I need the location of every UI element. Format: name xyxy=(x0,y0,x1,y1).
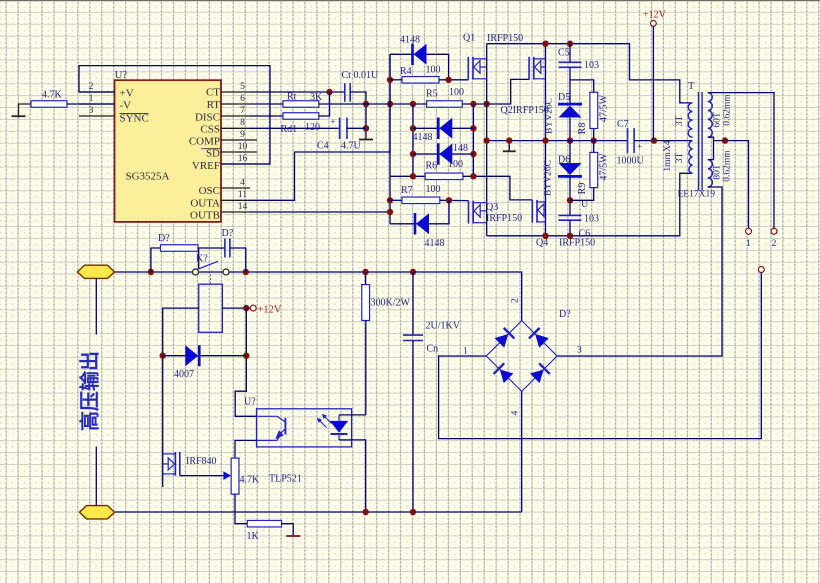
junction rail/Q2 drain xyxy=(542,41,548,47)
svg-text:47/5W: 47/5W xyxy=(599,153,610,181)
transformer secondary winding upper 60T xyxy=(708,93,712,138)
junction main/D? snubber xyxy=(148,269,154,275)
svg-text:10: 10 xyxy=(238,142,248,152)
wire 4.7K to 1K xyxy=(235,494,247,524)
capacitor Cn 2U/1KV xyxy=(412,272,414,335)
resistor 4.7K (left of IC) xyxy=(31,101,67,108)
connector top hexagon HV output xyxy=(77,265,114,278)
svg-text:+: + xyxy=(637,143,642,153)
resistor R6 100 xyxy=(425,173,463,180)
svg-text:1K: 1K xyxy=(247,531,260,542)
wire secondary top to port 2 xyxy=(708,93,774,229)
svg-text:SG3525A: SG3525A xyxy=(126,171,170,183)
wire capacitor to main xyxy=(230,248,246,272)
svg-text:IRFP150: IRFP150 xyxy=(486,213,522,224)
pin 2 of U? xyxy=(79,91,115,93)
junction secondary tap xyxy=(722,137,728,143)
svg-text:0.62mm: 0.62mm xyxy=(723,94,733,126)
svg-text:Rt: Rt xyxy=(287,92,297,103)
bridge diode 4-1 (points to 1) xyxy=(494,363,514,383)
junction Ct-vert/CSS line xyxy=(363,125,369,131)
wire main line hexagon to bridge pin 2 xyxy=(115,272,522,321)
wire bridge 4 down to bottom rail xyxy=(521,391,523,512)
svg-text:Q3: Q3 xyxy=(486,202,498,213)
wire port3 to bridge input loop xyxy=(439,273,762,439)
wire bottom rail Q3/Q4 sources to transformer primary bottom xyxy=(487,173,693,236)
svg-text:CSS: CSS xyxy=(200,124,220,136)
transformer primary winding lower 3T xyxy=(689,141,693,174)
ground below C4 branch xyxy=(359,139,373,141)
HV output leader line lower xyxy=(95,447,97,506)
capacitor D? xyxy=(224,239,226,258)
capacitor Ct xyxy=(344,83,346,102)
opto LED xyxy=(330,421,348,433)
gate network left rail xyxy=(389,54,391,224)
wire to snubber resistor D? xyxy=(151,248,161,272)
svg-text:EE17X19: EE17X19 xyxy=(678,190,716,200)
wire opto LED cathode to bottom rail xyxy=(339,439,352,441)
diode D6 BYV26C xyxy=(558,175,582,178)
junction relay-left/4007 xyxy=(160,353,166,359)
ground on center line xyxy=(508,141,510,151)
svg-text:R6: R6 xyxy=(426,161,438,172)
transistor Q2 IRFP150 xyxy=(528,57,530,80)
junction rail/OUTA xyxy=(387,197,393,203)
wire R9 bottom return xyxy=(570,188,594,201)
wire Rt to R5 and Q2 gate xyxy=(319,103,427,105)
diode 4148 (lower of pair) xyxy=(437,143,440,165)
opto phototransistor xyxy=(257,415,278,417)
switch K? xyxy=(193,269,199,275)
svg-text:1: 1 xyxy=(89,94,94,104)
wire R8 top xyxy=(570,80,594,92)
svg-text:C4: C4 xyxy=(317,141,329,152)
svg-text:CT: CT xyxy=(206,87,220,99)
HV output leader line upper xyxy=(95,278,97,334)
pin 11 of U? xyxy=(221,199,250,201)
transformer primary winding upper 3T xyxy=(688,103,692,137)
pin 6 of U? xyxy=(221,103,250,105)
resistor R9 47/5W xyxy=(590,152,598,187)
svg-text:R7: R7 xyxy=(401,185,413,196)
svg-text:RT: RT xyxy=(207,99,221,111)
svg-text:C7: C7 xyxy=(617,119,629,130)
svg-text:COMP: COMP xyxy=(189,136,220,148)
svg-text:1: 1 xyxy=(463,347,468,357)
wire opto LED anode to 300K xyxy=(339,414,366,416)
svg-text:Q1: Q1 xyxy=(463,33,475,44)
wire IRF840 gate to 4.7K with arrow xyxy=(180,475,225,477)
power +12V (top) xyxy=(651,21,657,27)
transistor IRF840 (mirrored MOSFET) xyxy=(174,452,176,476)
svg-text:4148: 4148 xyxy=(413,132,433,143)
svg-text:60T: 60T xyxy=(713,112,723,128)
wire opto emitter to 4.7K xyxy=(235,440,257,458)
wire center to D6 xyxy=(569,141,571,164)
diode 4148 (upper of pair) xyxy=(437,118,440,140)
svg-text:R4: R4 xyxy=(400,66,412,77)
svg-text:14: 14 xyxy=(238,202,248,212)
resistor D? (snubber) xyxy=(161,245,199,252)
wire 4007 line xyxy=(163,355,247,357)
pin 1 of U? xyxy=(79,103,115,105)
wire diode line 1 xyxy=(413,127,473,129)
svg-text:8: 8 xyxy=(240,118,245,128)
svg-text:3T: 3T xyxy=(675,153,685,164)
wire bottom rail from hexagon xyxy=(115,511,522,513)
diode 4148 (bottom, near R7) xyxy=(414,213,417,235)
wire snubber to capacitor D? xyxy=(198,247,225,249)
svg-text:+: + xyxy=(330,118,335,128)
wire 300K to opto anode xyxy=(365,321,367,415)
junction bottom/LED cathode xyxy=(363,509,369,515)
svg-text:+12V: +12V xyxy=(643,10,667,21)
svg-text:Cn: Cn xyxy=(427,344,439,355)
junction rail/R4 line xyxy=(387,77,393,83)
svg-text:+12V: +12V xyxy=(258,305,282,316)
svg-text:Q2IRFP150: Q2IRFP150 xyxy=(501,105,549,116)
svg-text:16: 16 xyxy=(238,154,248,164)
junction center/Q1Q3 xyxy=(484,137,490,143)
wire pin2 to VREF loop xyxy=(79,66,270,164)
wire R6 line to Q4 gate xyxy=(390,175,425,177)
junction bottom rail/Q4 source xyxy=(542,233,548,239)
junction main/cap branch xyxy=(243,269,249,275)
svg-text:Ct 0.01U: Ct 0.01U xyxy=(342,70,379,81)
junction R5 line/rail xyxy=(387,101,393,107)
svg-text:IRFP150: IRFP150 xyxy=(487,33,523,44)
transistor Q3 IRFP150 xyxy=(468,201,470,224)
pin 8 of U? xyxy=(221,127,250,129)
svg-text:4148: 4148 xyxy=(448,143,468,154)
wire Ct right to vertical xyxy=(350,92,366,139)
svg-text:C6: C6 xyxy=(579,229,591,240)
transformer secondary winding lower 80T xyxy=(708,160,713,187)
resistor R5 100 xyxy=(427,101,463,108)
wire center line xyxy=(487,140,627,142)
svg-text:OUTA: OUTA xyxy=(190,197,220,209)
relay link dashes xyxy=(210,275,212,284)
bridge diode 1-2 (points to 2) xyxy=(494,328,514,348)
wire R8 to center xyxy=(593,129,595,141)
svg-text:9: 9 xyxy=(240,130,245,140)
svg-text:R9: R9 xyxy=(577,183,588,195)
svg-text:0.62mm: 0.62mm xyxy=(723,150,733,182)
svg-text:+V: +V xyxy=(120,87,134,99)
junction R6/left diode rail xyxy=(410,173,416,179)
svg-text:D?: D? xyxy=(559,309,571,320)
pin 7 of U? xyxy=(221,115,250,117)
junction R5 line/Q1 source xyxy=(484,101,490,107)
junction rail/C5 xyxy=(567,41,573,47)
bridge rectifier D? diamond xyxy=(486,321,557,392)
port 1 xyxy=(746,228,752,234)
bridge diode 4-3 (points to 3) xyxy=(530,363,550,383)
svg-text:100: 100 xyxy=(426,64,441,75)
pin 16 of U? xyxy=(221,163,270,165)
wire pin7 to Rd1 xyxy=(250,115,283,117)
svg-text:120: 120 xyxy=(305,122,320,133)
junction 4007/opto path xyxy=(243,353,249,359)
svg-text:300K/2W: 300K/2W xyxy=(371,298,411,309)
resistor Rt 3K xyxy=(283,101,319,108)
Q2/Q4 drain-source vertical xyxy=(545,44,547,236)
junction R5/right diode rail xyxy=(470,101,476,107)
wire OUTA pin11 routing xyxy=(250,54,390,200)
junction main/Cn xyxy=(410,269,416,275)
port 2 xyxy=(771,228,777,234)
transistor Q1 IRFP150 xyxy=(467,57,469,80)
svg-text:3T: 3T xyxy=(675,116,685,127)
svg-text:4148: 4148 xyxy=(400,34,420,45)
wire Cn to bottom rail xyxy=(412,341,414,513)
svg-text:1000U: 1000U xyxy=(617,156,645,167)
wire center to R9 xyxy=(593,141,595,153)
svg-text:Rd1: Rd1 xyxy=(281,124,298,135)
svg-text:100: 100 xyxy=(449,87,464,98)
wire D5 to center xyxy=(569,118,571,141)
svg-text:BYV26C: BYV26C xyxy=(544,160,554,196)
svg-text:103: 103 xyxy=(584,60,599,71)
junction relay-right xyxy=(243,305,249,311)
svg-text:U?: U? xyxy=(115,70,128,81)
svg-text:SYNC: SYNC xyxy=(120,113,149,125)
svg-text:6: 6 xyxy=(240,94,245,104)
svg-text:3K: 3K xyxy=(310,92,323,103)
diode pair left rail xyxy=(412,104,414,176)
svg-text:BYV26C: BYV26C xyxy=(545,98,555,134)
svg-text:K?: K? xyxy=(196,254,208,265)
wire secondary mid tap xyxy=(708,137,714,159)
wire relay right to +12V xyxy=(222,307,250,309)
pin 9 of U? xyxy=(221,139,257,141)
svg-text:4: 4 xyxy=(511,411,521,416)
resistor R4 100 xyxy=(402,77,439,84)
ground at 4.7K input xyxy=(12,115,26,117)
svg-text:4007: 4007 xyxy=(174,369,194,380)
svg-text:Q4: Q4 xyxy=(536,238,548,249)
relay coil K? xyxy=(199,284,223,332)
svg-text:1mmX4: 1mmX4 xyxy=(663,140,673,171)
junction bottom rail/C6 xyxy=(567,233,573,239)
resistor 300K/2W xyxy=(365,272,367,285)
wire C5 branch xyxy=(569,44,571,62)
svg-text:4.7K: 4.7K xyxy=(240,475,261,486)
diode pair right rail xyxy=(472,104,474,176)
wire +12V node down to opto collector path xyxy=(235,308,256,416)
transformer T core xyxy=(698,92,700,191)
resistor R7 100 xyxy=(402,197,440,204)
wire secondary bottom to bridge output 3 xyxy=(557,187,722,356)
optocoupler U? TLP521 box xyxy=(257,409,352,447)
wire pin8 to C4 xyxy=(250,127,339,129)
svg-text:D?: D? xyxy=(158,233,170,244)
svg-text:T: T xyxy=(688,81,695,92)
bridge diode 3-2 (points to 2) xyxy=(529,328,549,348)
diode 4148 (top, near R4) xyxy=(411,44,414,66)
diode D5 BYV26C xyxy=(558,103,582,106)
svg-text:高压输出: 高压输出 xyxy=(78,351,102,431)
wire pin5 CT to Ct xyxy=(250,91,345,93)
svg-text:100: 100 xyxy=(448,159,463,170)
junction R4/right loop rail xyxy=(445,77,451,83)
svg-text:3: 3 xyxy=(577,346,582,356)
pin 4 of U? xyxy=(221,187,250,189)
svg-text:R8: R8 xyxy=(577,123,588,135)
power +12V (relay) xyxy=(250,305,256,311)
svg-text:2: 2 xyxy=(772,239,777,249)
junction R5 line/diode rail xyxy=(410,101,416,107)
diode 4007 xyxy=(198,345,201,366)
opto light arrows xyxy=(318,419,327,428)
svg-text:2: 2 xyxy=(511,298,521,303)
wire relay left to 4007 line xyxy=(163,308,199,487)
svg-text:4: 4 xyxy=(240,178,245,188)
junction R9 return xyxy=(567,197,573,203)
svg-text:D?: D? xyxy=(222,228,234,239)
junction Ct-vert/RT line xyxy=(363,101,369,107)
wire C7 to transformer center tap xyxy=(634,140,692,142)
svg-text:47/5W: 47/5W xyxy=(599,94,610,122)
svg-text:U?: U? xyxy=(244,397,256,408)
resistor Rd1 120 xyxy=(283,113,319,120)
svg-text:OUTB: OUTB xyxy=(190,210,220,222)
svg-text:80T: 80T xyxy=(713,164,723,180)
wire R5 to Q2 gate xyxy=(462,79,529,104)
wire R7 line xyxy=(390,199,402,201)
wire R7 to Q3 gate xyxy=(440,199,469,201)
wire R6 right to Q4 gate xyxy=(463,176,532,200)
svg-text:4.7U: 4.7U xyxy=(341,141,362,152)
wire 1K to ground xyxy=(282,524,294,536)
svg-text:100: 100 xyxy=(426,184,441,195)
svg-text:VREF: VREF xyxy=(192,160,220,172)
svg-text:D6: D6 xyxy=(558,154,570,165)
svg-text:R5: R5 xyxy=(426,89,438,100)
svg-text:2: 2 xyxy=(89,82,94,92)
resistor 1K xyxy=(247,520,281,527)
svg-text:4.7K: 4.7K xyxy=(42,90,63,101)
wire D6 to C6 xyxy=(569,176,571,215)
Q1/Q3 drain-source vertical xyxy=(486,44,488,236)
capacitor C5 103 xyxy=(559,61,582,63)
wire down to switch xyxy=(198,248,200,269)
svg-text:-V: -V xyxy=(120,100,132,112)
wire Rd1 up to CT line xyxy=(319,92,330,116)
svg-text:SD: SD xyxy=(206,148,220,160)
wire 4.7K to pin 1 xyxy=(67,103,115,105)
svg-text:D5: D5 xyxy=(558,92,570,103)
svg-text:TLP521: TLP521 xyxy=(269,474,302,485)
connector bottom hexagon xyxy=(80,506,115,519)
wire C5 to D5 xyxy=(569,67,571,104)
resistor 4.7K (opto emitter) xyxy=(231,458,239,494)
wire C6 to bottom rail xyxy=(569,220,571,236)
junction center/R8R9 xyxy=(591,137,597,143)
svg-text:3: 3 xyxy=(89,106,94,116)
junction at CT/Rd1 xyxy=(326,89,332,95)
wire R4 line xyxy=(390,79,402,81)
svg-text:5: 5 xyxy=(240,82,245,92)
port 3 (return terminal) xyxy=(758,267,764,273)
svg-text:OSC: OSC xyxy=(199,185,220,197)
wire from ground to resistor 4.7K xyxy=(19,104,32,118)
junction +12V feed / center tap xyxy=(651,137,657,143)
wire pin6 to Rt xyxy=(250,103,283,105)
svg-text:IRF840: IRF840 xyxy=(186,456,217,467)
wire diode line 2 xyxy=(413,153,473,155)
wire OUTB pin14 to rail xyxy=(250,211,389,213)
svg-text:11: 11 xyxy=(238,190,247,200)
pin 10 of U? xyxy=(221,151,257,153)
svg-text:4148: 4148 xyxy=(425,238,445,249)
wire top rail Q1/Q2 drains to transformer primary top xyxy=(487,44,693,103)
junction bottom/Cn xyxy=(410,509,416,515)
pin 5 of U? xyxy=(221,91,250,93)
junction R7/bottom loop rail xyxy=(446,197,452,203)
junction main/300K xyxy=(362,269,368,275)
junction center/Q2Q4 xyxy=(542,137,548,143)
junction center/D-chain xyxy=(567,137,573,143)
svg-text:DISC: DISC xyxy=(195,111,220,123)
IC U? SG3525A body xyxy=(115,80,222,222)
pin 3 of U? xyxy=(79,115,115,117)
pin 14 of U? xyxy=(221,211,250,213)
svg-text:7: 7 xyxy=(240,106,245,116)
wire bottom 4148 loop xyxy=(390,200,449,224)
svg-text:103: 103 xyxy=(584,214,599,225)
capacitor C6 103 xyxy=(559,214,582,216)
svg-text:C5: C5 xyxy=(558,48,570,59)
capacitor C7 1000U electrolytic xyxy=(627,128,629,153)
resistor R8 47/5W xyxy=(590,92,598,128)
wire top 4148 loop xyxy=(390,54,449,80)
ground at 1K xyxy=(286,535,300,537)
svg-text:2U/1KV: 2U/1KV xyxy=(426,321,461,332)
wire C4 to ground vertical xyxy=(346,127,366,129)
transistor Q4 IRFP150 xyxy=(531,200,533,223)
capacitor C4 4.7U electrolytic xyxy=(339,118,341,140)
junction R6/right diode rail xyxy=(470,173,476,179)
junction rail/OUTB xyxy=(387,209,393,215)
svg-text:1: 1 xyxy=(746,239,751,249)
